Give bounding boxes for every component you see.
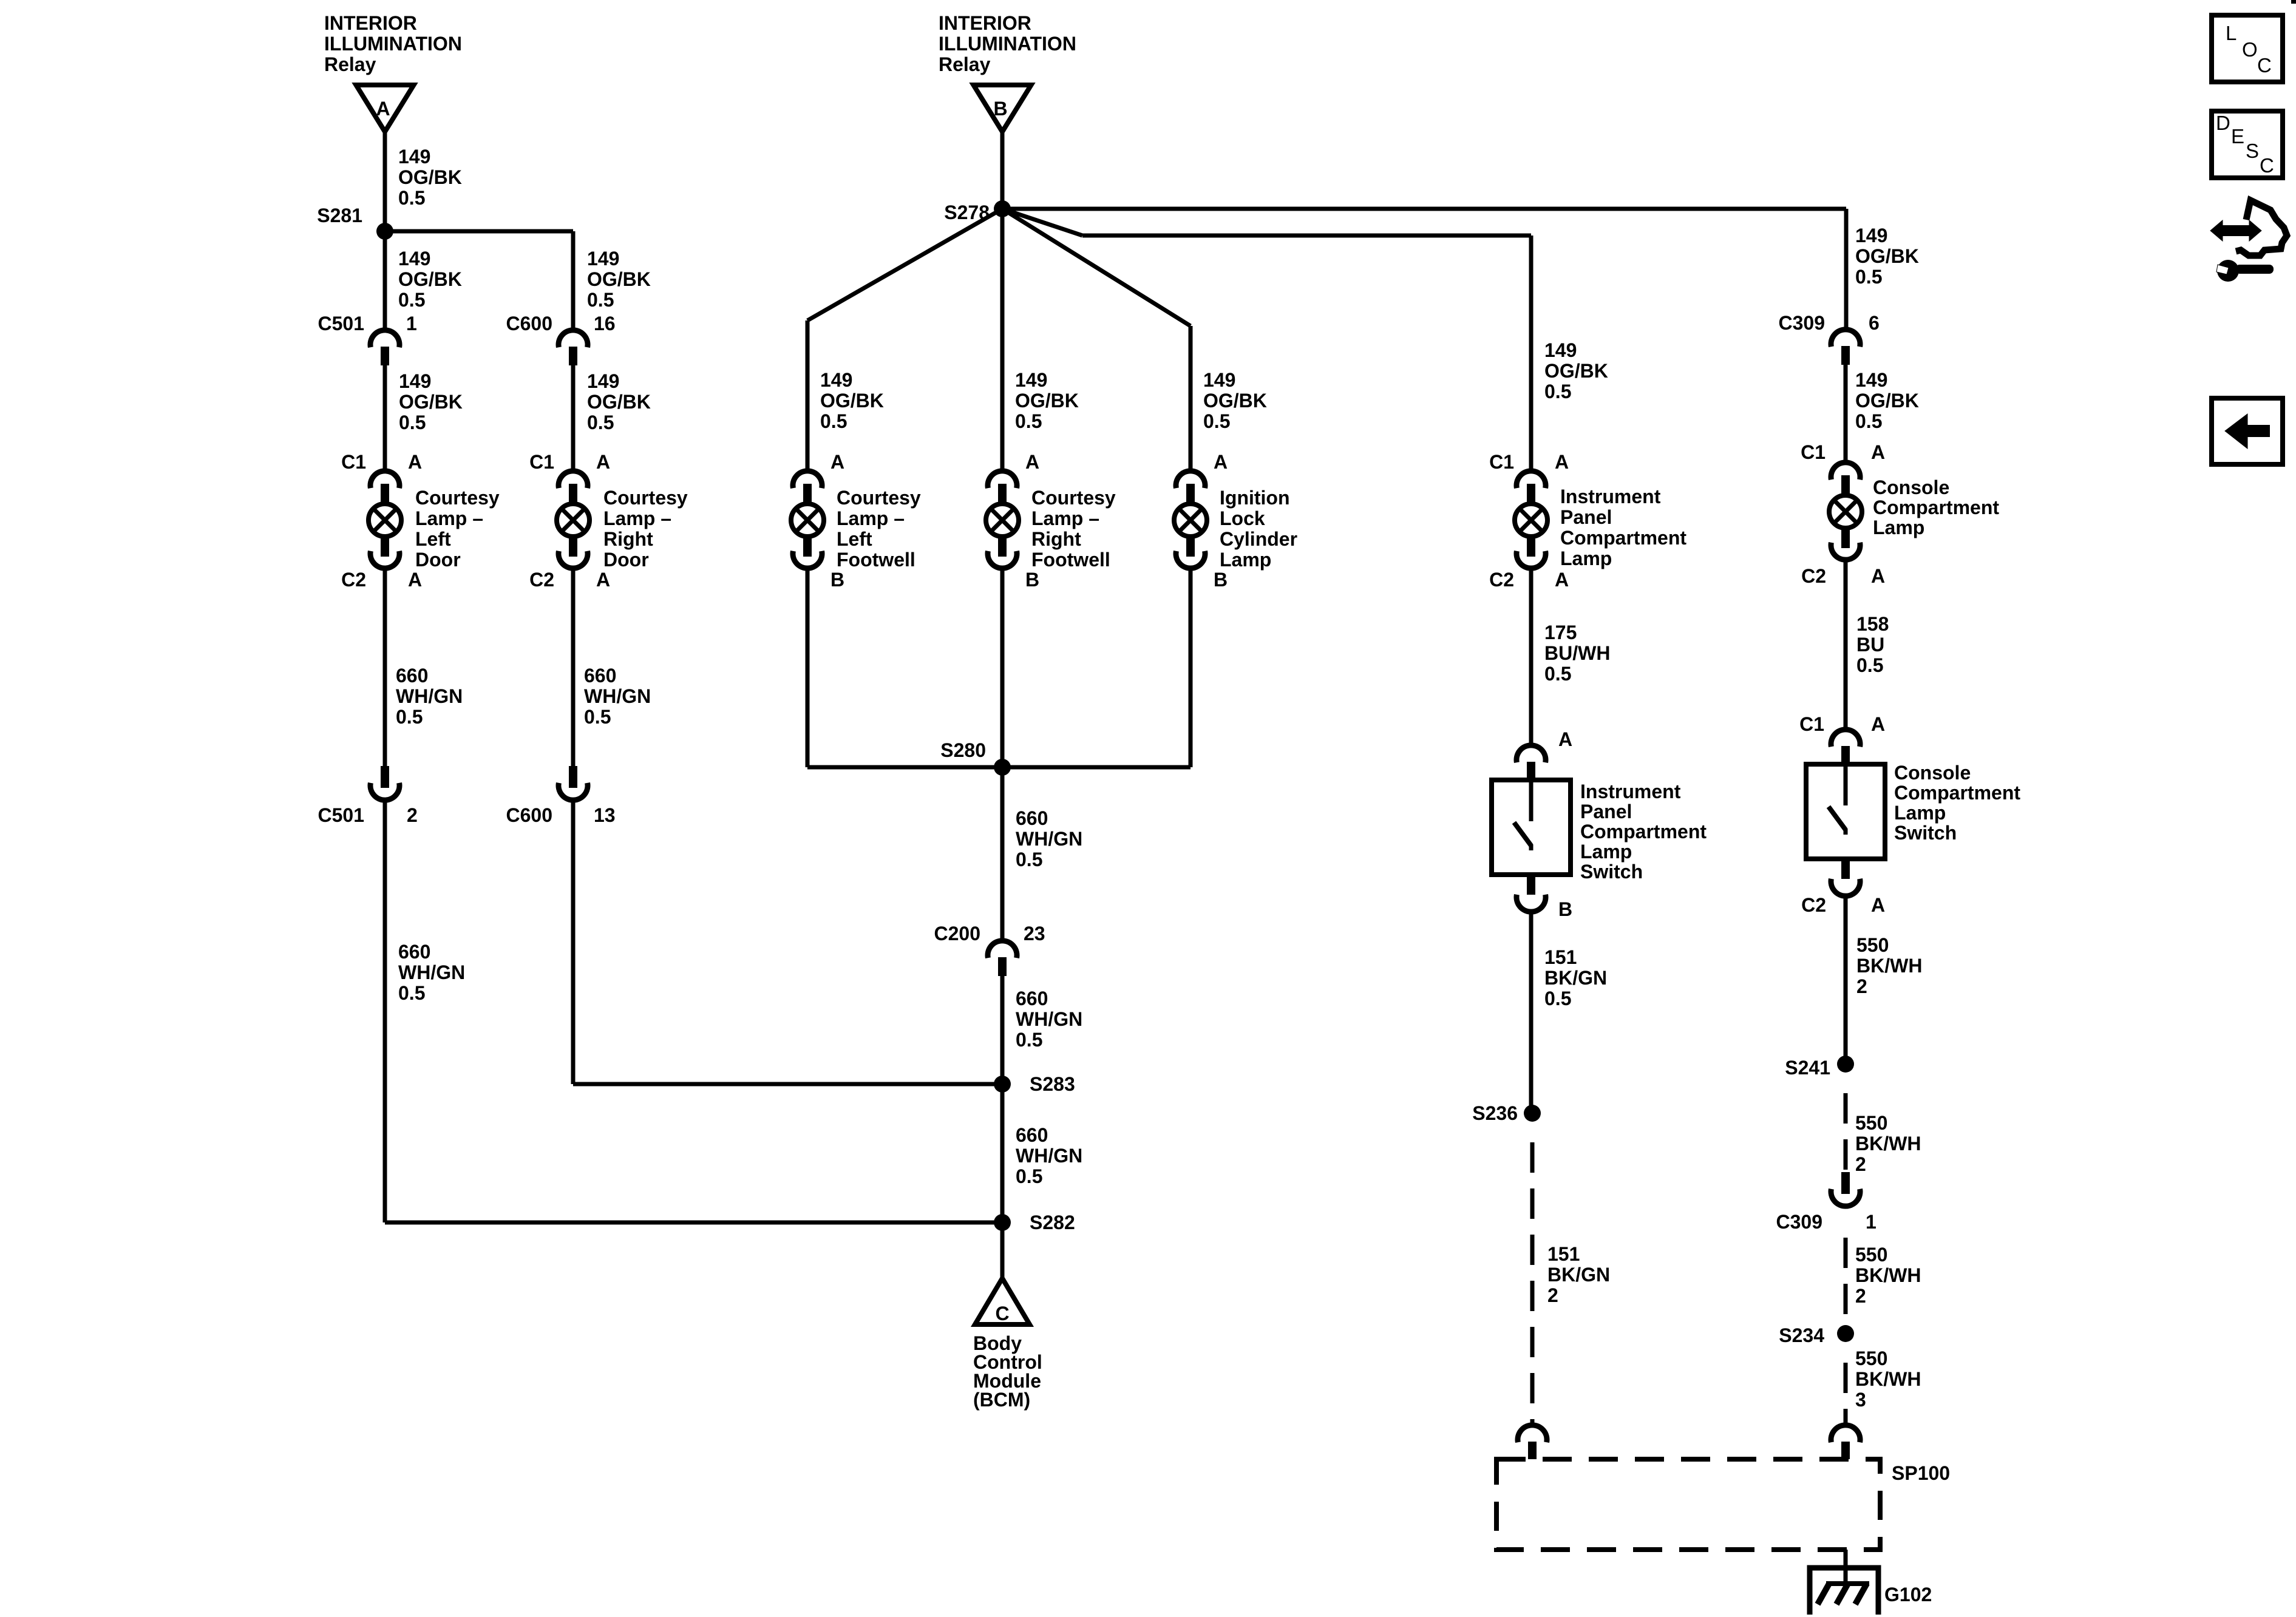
svg-text:(BCM): (BCM) [973, 1389, 1030, 1411]
svg-text:0.5: 0.5 [1856, 654, 1883, 676]
svg-text:Courtesy: Courtesy [1031, 487, 1116, 509]
svg-text:OG/BK: OG/BK [1855, 390, 1919, 412]
svg-text:16: 16 [594, 313, 616, 334]
svg-text:660: 660 [584, 665, 616, 686]
svg-text:INTERIOR: INTERIOR [324, 12, 417, 34]
svg-text:0.5: 0.5 [398, 187, 425, 209]
svg-text:A: A [1871, 713, 1885, 735]
svg-text:A: A [1555, 569, 1569, 591]
svg-text:0.5: 0.5 [584, 706, 611, 728]
svg-text:1: 1 [1866, 1211, 1877, 1233]
svg-text:A: A [1871, 894, 1885, 916]
svg-text:149: 149 [1855, 369, 1887, 391]
svg-text:C: C [995, 1303, 1009, 1324]
svg-text:0.5: 0.5 [398, 289, 425, 311]
svg-text:A: A [376, 98, 390, 120]
svg-text:2: 2 [407, 804, 418, 826]
svg-text:Switch: Switch [1580, 861, 1643, 883]
svg-text:A: A [1214, 451, 1228, 473]
svg-text:0.5: 0.5 [1016, 1165, 1042, 1187]
svg-text:OG/BK: OG/BK [587, 391, 651, 413]
svg-text:C1: C1 [1801, 441, 1826, 463]
svg-text:ILLUMINATION: ILLUMINATION [324, 33, 462, 55]
svg-text:Compartment: Compartment [1580, 821, 1707, 842]
svg-text:C2: C2 [529, 569, 554, 591]
svg-text:Cylinder: Cylinder [1220, 528, 1297, 550]
svg-text:C: C [2257, 54, 2272, 76]
svg-text:6: 6 [1869, 312, 1880, 334]
svg-text:149: 149 [1203, 369, 1235, 391]
svg-text:WH/GN: WH/GN [1016, 1008, 1082, 1030]
svg-text:S236: S236 [1472, 1102, 1518, 1124]
svg-text:Lamp –: Lamp – [415, 507, 483, 529]
svg-text:0.5: 0.5 [1544, 663, 1571, 685]
svg-text:C: C [2260, 154, 2274, 177]
svg-text:175: 175 [1544, 622, 1577, 643]
svg-text:0.5: 0.5 [1855, 410, 1882, 432]
svg-text:B: B [830, 569, 844, 591]
svg-text:OG/BK: OG/BK [587, 268, 651, 290]
svg-text:0.5: 0.5 [1855, 266, 1882, 288]
svg-text:Right: Right [603, 528, 653, 550]
svg-text:0.5: 0.5 [396, 706, 423, 728]
svg-text:OG/BK: OG/BK [1855, 245, 1919, 267]
svg-text:BK/WH: BK/WH [1855, 1264, 1921, 1286]
svg-text:S280: S280 [940, 739, 986, 761]
svg-text:2: 2 [1855, 1285, 1866, 1307]
svg-text:Lamp –: Lamp – [1031, 507, 1099, 529]
svg-text:C1: C1 [529, 451, 554, 473]
svg-text:Courtesy: Courtesy [603, 487, 688, 509]
svg-text:660: 660 [396, 665, 428, 686]
svg-text:WH/GN: WH/GN [1016, 828, 1082, 850]
svg-text:660: 660 [398, 941, 430, 963]
svg-text:E: E [2231, 125, 2244, 147]
svg-text:0.5: 0.5 [820, 410, 847, 432]
svg-text:OG/BK: OG/BK [398, 166, 462, 188]
svg-text:0.5: 0.5 [1544, 381, 1571, 402]
svg-text:BU: BU [1856, 634, 1884, 656]
svg-text:S241: S241 [1785, 1057, 1830, 1079]
svg-text:WH/GN: WH/GN [398, 961, 465, 983]
svg-text:Lamp: Lamp [1220, 549, 1271, 571]
svg-text:0.5: 0.5 [1015, 410, 1042, 432]
svg-text:WH/GN: WH/GN [1016, 1145, 1082, 1167]
svg-text:2: 2 [1855, 1153, 1866, 1175]
svg-text:G102: G102 [1884, 1584, 1932, 1605]
svg-text:Lock: Lock [1220, 507, 1265, 529]
svg-text:A: A [1555, 451, 1569, 473]
svg-text:23: 23 [1024, 923, 1045, 944]
svg-text:2: 2 [1547, 1284, 1558, 1306]
svg-text:A: A [1871, 565, 1885, 587]
svg-text:C309: C309 [1779, 312, 1826, 334]
svg-text:0.5: 0.5 [399, 412, 426, 433]
svg-text:Relay: Relay [939, 53, 991, 75]
svg-text:Lamp: Lamp [1873, 517, 1924, 538]
svg-text:151: 151 [1547, 1243, 1580, 1265]
svg-text:A: A [1025, 451, 1039, 473]
svg-text:0.5: 0.5 [398, 982, 425, 1004]
svg-text:ILLUMINATION: ILLUMINATION [939, 33, 1076, 55]
svg-text:C200: C200 [934, 923, 981, 944]
svg-text:149: 149 [399, 370, 431, 392]
svg-text:149: 149 [398, 248, 430, 269]
svg-text:Courtesy: Courtesy [415, 487, 500, 509]
svg-text:Instrument: Instrument [1560, 486, 1661, 507]
svg-text:C600: C600 [506, 313, 553, 334]
svg-text:A: A [596, 451, 610, 473]
svg-text:C501: C501 [318, 313, 365, 334]
svg-text:Left: Left [837, 528, 872, 550]
svg-text:OG/BK: OG/BK [1544, 360, 1608, 382]
svg-text:A: A [408, 569, 422, 591]
svg-text:C2: C2 [1489, 569, 1514, 591]
svg-text:149: 149 [587, 248, 619, 269]
svg-text:158: 158 [1856, 613, 1889, 635]
svg-text:Lamp: Lamp [1560, 547, 1612, 569]
svg-text:Left: Left [415, 528, 451, 550]
svg-text:0.5: 0.5 [1203, 410, 1230, 432]
svg-text:Courtesy: Courtesy [837, 487, 921, 509]
svg-text:B: B [1558, 898, 1572, 920]
svg-text:660: 660 [1016, 988, 1048, 1009]
svg-text:Footwell: Footwell [1031, 549, 1110, 571]
svg-text:BU/WH: BU/WH [1544, 642, 1610, 664]
svg-text:OG/BK: OG/BK [1203, 390, 1267, 412]
svg-text:C600: C600 [506, 804, 553, 826]
svg-text:550: 550 [1855, 1112, 1887, 1134]
svg-text:Ignition: Ignition [1220, 487, 1290, 509]
svg-text:S283: S283 [1030, 1073, 1075, 1095]
svg-text:OG/BK: OG/BK [820, 390, 884, 412]
svg-text:S: S [2246, 140, 2259, 162]
svg-text:B: B [1214, 569, 1228, 591]
svg-text:O: O [2242, 38, 2258, 61]
svg-text:C501: C501 [318, 804, 365, 826]
svg-text:Lamp: Lamp [1894, 802, 1946, 824]
svg-text:L: L [2226, 22, 2237, 44]
svg-text:BK/GN: BK/GN [1544, 967, 1607, 989]
svg-text:A: A [1871, 441, 1885, 463]
svg-text:0.5: 0.5 [587, 412, 614, 433]
svg-text:OG/BK: OG/BK [1015, 390, 1079, 412]
svg-text:Instrument: Instrument [1580, 781, 1681, 802]
svg-text:550: 550 [1855, 1347, 1887, 1369]
svg-text:660: 660 [1016, 1124, 1048, 1146]
svg-text:A: A [408, 451, 422, 473]
svg-text:B: B [993, 98, 1007, 120]
svg-text:Panel: Panel [1580, 801, 1632, 822]
svg-text:0.5: 0.5 [1544, 988, 1571, 1009]
svg-text:149: 149 [820, 369, 852, 391]
svg-text:Compartment: Compartment [1873, 497, 1999, 518]
svg-text:C2: C2 [1801, 565, 1826, 587]
svg-text:A: A [830, 451, 844, 473]
svg-text:149: 149 [398, 146, 430, 168]
svg-text:Panel: Panel [1560, 506, 1612, 528]
svg-text:Console: Console [1894, 762, 1971, 784]
svg-text:Lamp: Lamp [1580, 841, 1632, 863]
svg-text:WH/GN: WH/GN [584, 685, 651, 707]
svg-text:Footwell: Footwell [837, 549, 915, 571]
svg-text:550: 550 [1855, 1244, 1887, 1266]
svg-text:A: A [1558, 728, 1572, 750]
svg-text:BK/GN: BK/GN [1547, 1264, 1610, 1286]
svg-text:C1: C1 [1799, 713, 1824, 735]
svg-text:Lamp –: Lamp – [603, 507, 671, 529]
svg-text:Lamp –: Lamp – [837, 507, 905, 529]
svg-text:SP100: SP100 [1892, 1462, 1950, 1484]
svg-text:C2: C2 [341, 569, 366, 591]
svg-text:149: 149 [1544, 339, 1577, 361]
svg-text:OG/BK: OG/BK [398, 268, 462, 290]
svg-text:C2: C2 [1801, 894, 1826, 916]
svg-text:1: 1 [406, 313, 417, 334]
svg-text:S281: S281 [317, 205, 362, 226]
svg-text:550: 550 [1856, 934, 1889, 956]
svg-text:BK/WH: BK/WH [1855, 1368, 1921, 1390]
svg-text:3: 3 [1855, 1389, 1866, 1411]
svg-text:D: D [2216, 112, 2230, 134]
svg-text:S234: S234 [1779, 1324, 1824, 1346]
svg-text:OG/BK: OG/BK [399, 391, 463, 413]
svg-text:151: 151 [1544, 946, 1577, 968]
svg-text:BK/WH: BK/WH [1855, 1133, 1921, 1154]
svg-text:Relay: Relay [324, 53, 376, 75]
svg-text:BK/WH: BK/WH [1856, 955, 1922, 977]
svg-text:C1: C1 [1489, 451, 1514, 473]
svg-text:660: 660 [1016, 807, 1048, 829]
svg-text:0.5: 0.5 [1016, 849, 1042, 870]
svg-text:Compartment: Compartment [1894, 782, 2020, 804]
svg-text:S282: S282 [1030, 1212, 1075, 1233]
svg-text:Right: Right [1031, 528, 1081, 550]
svg-text:C309: C309 [1776, 1211, 1823, 1233]
svg-text:A: A [596, 569, 610, 591]
svg-text:Console: Console [1873, 476, 1949, 498]
svg-text:C1: C1 [341, 451, 366, 473]
svg-text:INTERIOR: INTERIOR [939, 12, 1031, 34]
svg-text:WH/GN: WH/GN [396, 685, 463, 707]
svg-text:B: B [1025, 569, 1039, 591]
svg-text:149: 149 [1015, 369, 1047, 391]
svg-text:0.5: 0.5 [587, 289, 614, 311]
svg-text:Switch: Switch [1894, 822, 1957, 844]
svg-text:0.5: 0.5 [1016, 1029, 1042, 1051]
svg-text:Compartment: Compartment [1560, 527, 1686, 549]
svg-text:149: 149 [1855, 225, 1887, 246]
svg-text:Door: Door [603, 549, 649, 571]
svg-text:149: 149 [587, 370, 619, 392]
svg-text:Door: Door [415, 549, 461, 571]
svg-text:2: 2 [1856, 975, 1867, 997]
svg-text:13: 13 [594, 804, 616, 826]
